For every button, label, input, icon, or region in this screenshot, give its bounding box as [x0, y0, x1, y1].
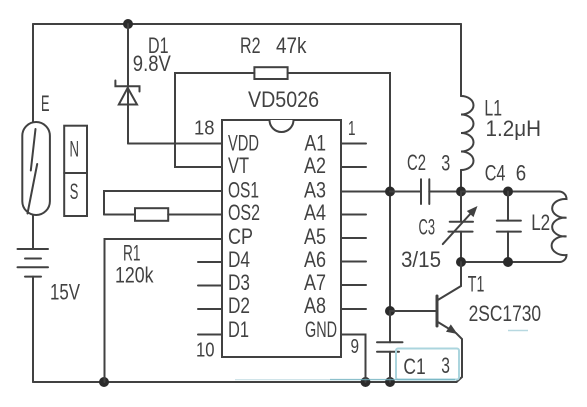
battery 15V plate short — [25, 258, 41, 260]
svg-text:D4: D4 — [228, 247, 250, 272]
pin stub D2 — [198, 308, 222, 310]
svg-text:D1: D1 — [228, 317, 249, 342]
IC U1 notch — [270, 120, 294, 132]
zener D1 cathode bar with ticks — [115, 81, 139, 92]
svg-text:VD5026: VD5026 — [248, 87, 319, 112]
svg-text:OS2: OS2 — [228, 200, 260, 225]
capacitor C4 bottom lead — [507, 232, 509, 262]
junction C3 bottom / collector — [456, 257, 466, 267]
wire bottom rail — [33, 381, 457, 383]
watermark box around C1 label — [396, 349, 459, 380]
svg-text:VT: VT — [228, 153, 249, 178]
svg-text:A8: A8 — [304, 293, 326, 318]
zener D1 bottom lead to VDD — [127, 88, 129, 144]
svg-text:GND: GND — [305, 317, 337, 342]
svg-text:N: N — [70, 137, 80, 162]
wire CP to ground — [105, 239, 223, 382]
svg-text:C1: C1 — [403, 354, 425, 379]
svg-text:C4: C4 — [485, 161, 506, 186]
svg-text:S: S — [70, 179, 79, 204]
capacitor C2 right lead — [429, 191, 461, 193]
wire base to T1 — [390, 310, 437, 312]
svg-text:C3: C3 — [419, 215, 436, 240]
capacitor C3 plates — [448, 222, 473, 232]
svg-text:D2: D2 — [228, 293, 250, 318]
capacitor C4 top lead — [507, 192, 509, 221]
pin stub A6 — [341, 261, 366, 263]
reed contact upper — [31, 129, 36, 171]
wire node A3/C2 vertical — [389, 192, 391, 312]
wire GND pin to bottom rail — [341, 335, 366, 383]
resistor R1 right lead to OS2 — [168, 214, 222, 216]
svg-text:A5: A5 — [304, 224, 326, 249]
svg-text:A3: A3 — [304, 178, 326, 203]
inductor L1 coil — [461, 96, 474, 170]
svg-text:T1: T1 — [468, 272, 485, 297]
watermark teal dash upper — [508, 330, 528, 332]
battery 15V plate long — [18, 266, 49, 268]
magnet body — [64, 126, 87, 216]
svg-text:3: 3 — [441, 151, 450, 176]
battery 15V plate long top — [18, 248, 49, 250]
wire pin18 VDD — [128, 143, 222, 145]
svg-text:L2: L2 — [531, 210, 550, 235]
junction node A3 / C2 — [385, 187, 395, 197]
svg-text:A2: A2 — [304, 153, 326, 178]
junction base tap — [385, 306, 395, 316]
battery 15V plate short bottom — [25, 276, 41, 278]
reed tube E body — [22, 122, 50, 215]
svg-text:15V: 15V — [50, 280, 80, 305]
pin stub A8 — [341, 308, 366, 310]
capacitor C3 arrow head — [467, 206, 478, 217]
pin stub A5 — [341, 237, 366, 239]
junction bottom rail / GND pin — [361, 377, 371, 387]
resistor R2 right arm — [288, 73, 390, 192]
svg-text:10: 10 — [196, 340, 215, 362]
wire top rail — [33, 23, 461, 25]
capacitor C4 plates — [497, 221, 521, 232]
junction L1 / C2 / C3 node — [456, 187, 466, 197]
capacitor C3 arrow shaft — [443, 212, 472, 244]
capacitor C2 left lead — [390, 191, 421, 193]
svg-text:6: 6 — [516, 161, 526, 186]
svg-text:R2: R2 — [240, 33, 261, 58]
junction top rail / D1 — [123, 19, 133, 29]
svg-text:E: E — [41, 91, 50, 116]
resistor R1 body — [135, 208, 168, 221]
svg-text:OS1: OS1 — [228, 178, 259, 203]
watermark teal trace on bottom rail — [235, 379, 330, 381]
capacitor C3 bottom lead — [460, 232, 462, 262]
pin stub A7 — [341, 284, 366, 286]
svg-text:1.2μH: 1.2μH — [486, 116, 542, 141]
capacitor C1 top lead — [389, 311, 391, 342]
pin stub D4 — [198, 261, 222, 263]
wire battery to bottom rail — [32, 277, 34, 382]
junction C4 top — [503, 187, 513, 197]
wire tube E to battery — [32, 215, 34, 249]
reed contact lower — [28, 164, 38, 214]
zener D1 top lead — [127, 24, 129, 86]
wire OS1 — [104, 191, 222, 215]
inductor L2 coil — [552, 192, 567, 263]
transistor T1 collector lead — [437, 262, 461, 301]
inductor L1 top lead — [460, 24, 462, 96]
wire tank top rail — [461, 191, 559, 193]
pin stub D3 — [198, 285, 222, 287]
capacitor C1 bottom lead — [389, 352, 391, 382]
pin stub A2 — [341, 166, 366, 168]
svg-text:C2: C2 — [407, 150, 426, 175]
svg-text:3: 3 — [441, 353, 450, 378]
wire A3 to node — [341, 191, 390, 193]
transistor T1 base bar — [436, 296, 439, 326]
svg-text:9.8V: 9.8V — [133, 51, 171, 76]
svg-text:A1: A1 — [305, 131, 327, 156]
svg-text:47k: 47k — [276, 33, 307, 58]
junction C4 bottom — [503, 257, 513, 267]
svg-text:2SC1730: 2SC1730 — [469, 301, 541, 326]
resistor R2 body — [254, 67, 287, 79]
junction bottom rail / C1 — [385, 377, 395, 387]
svg-text:1: 1 — [348, 118, 356, 140]
svg-text:VDD: VDD — [228, 131, 259, 156]
junction bottom rail / CP ground — [99, 377, 109, 387]
inductor L1 bottom lead — [460, 170, 462, 192]
svg-text:18: 18 — [194, 118, 215, 140]
magnet divider — [64, 172, 87, 174]
resistor R2 left arm from VT — [175, 73, 254, 167]
svg-text:A7: A7 — [304, 270, 326, 295]
svg-text:D3: D3 — [228, 270, 250, 295]
capacitor C2 plates — [421, 179, 429, 204]
svg-text:A4: A4 — [304, 200, 326, 225]
zener D1 triangle — [119, 88, 137, 105]
capacitor C1 plates — [377, 342, 403, 352]
pin stub D1 — [198, 334, 222, 336]
svg-text:120k: 120k — [115, 263, 154, 288]
svg-text:3/15: 3/15 — [401, 247, 441, 272]
svg-text:CP: CP — [228, 224, 253, 249]
resistor R1 left lead on OS2 — [104, 214, 135, 216]
pin stub A1 — [341, 143, 366, 145]
transistor T1 emitter arrow — [446, 324, 458, 334]
wire tank bottom rail — [461, 261, 560, 263]
wire left vertical from rail to tube E — [32, 24, 34, 122]
IC U1 VD5026 body — [222, 120, 341, 357]
svg-text:A6: A6 — [304, 247, 326, 272]
pin stub A4 — [341, 214, 366, 216]
svg-text:9: 9 — [351, 336, 360, 358]
capacitor C3 top lead — [460, 192, 462, 222]
transistor T1 emitter lead — [437, 322, 462, 383]
